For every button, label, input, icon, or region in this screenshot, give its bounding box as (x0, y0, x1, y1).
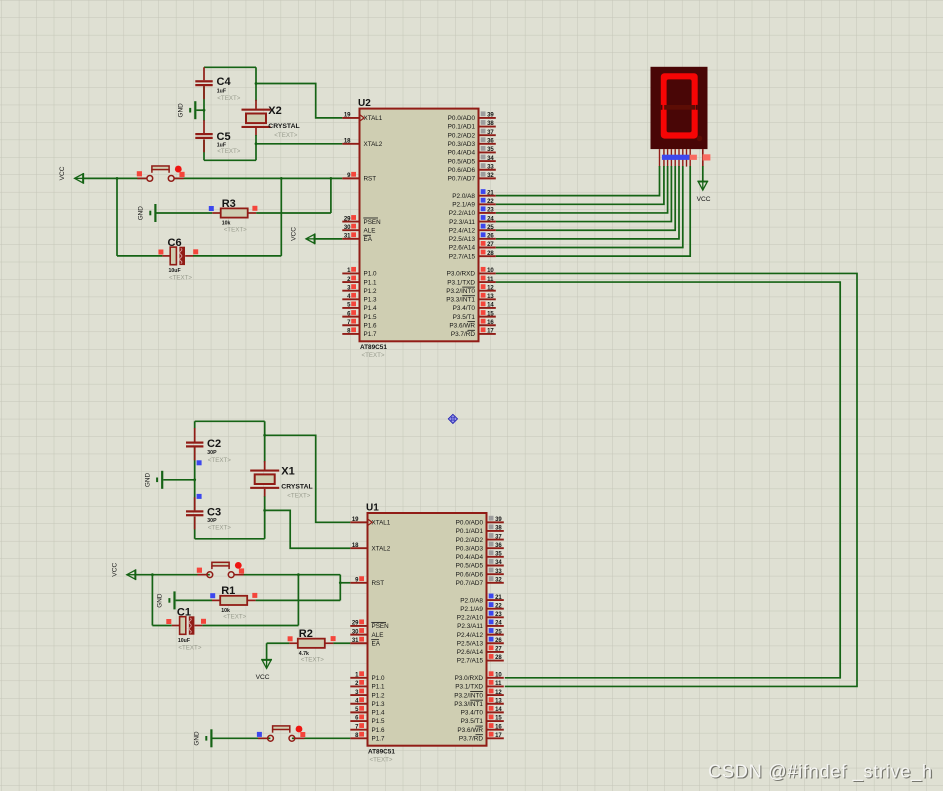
svg-text:38: 38 (495, 526, 502, 532)
wire GND branch (top crystal) (196, 109, 204, 111)
svg-text:AT89C51: AT89C51 (360, 344, 387, 351)
CSDN watermark text (708, 761, 934, 783)
svg-text:17: 17 (495, 733, 502, 739)
U2 pin 9 RST (342, 177, 359, 179)
svg-text:P1.6: P1.6 (364, 322, 377, 329)
svg-text:P2.2/A10: P2.2/A10 (449, 210, 476, 217)
svg-text:C2: C2 (207, 438, 221, 450)
U1 pin 18 XTAL2 (350, 547, 367, 549)
crystal X1 (250, 470, 279, 472)
svg-text:P0.2/AD2: P0.2/AD2 (456, 537, 484, 544)
wire C6 to RST branch (193, 255, 281, 257)
svg-text:P0.3/AD3: P0.3/AD3 (456, 545, 484, 552)
svg-text:P1.2: P1.2 (372, 692, 385, 699)
svg-text:<TEXT>: <TEXT> (217, 95, 240, 102)
U2 pin 35 P0.4/AD4 (479, 151, 496, 153)
svg-text:RST: RST (364, 176, 377, 183)
ground symbol (GND at R1) (173, 591, 175, 609)
svg-text:P0.1/AD1: P0.1/AD1 (448, 124, 476, 131)
svg-text:16: 16 (495, 724, 502, 730)
svg-text:C1: C1 (177, 607, 191, 619)
wire button to riser (U1 RST) (241, 574, 340, 576)
svg-text:P3.0/RXD: P3.0/RXD (455, 675, 484, 682)
svg-text:P0.0/AD0: P0.0/AD0 (456, 520, 484, 527)
wire X2 top segment (255, 67, 257, 101)
U2 pin 37 P0.2/AD2 (479, 134, 496, 136)
svg-text:P0.6/AD6: P0.6/AD6 (448, 167, 476, 174)
svg-text:38: 38 (487, 121, 494, 127)
svg-text:GND: GND (157, 593, 164, 608)
svg-text:P2.5/A13: P2.5/A13 (457, 640, 484, 647)
U2 pin 23 P2.2/A10 (479, 212, 496, 214)
ground symbol (GND bottom button) (210, 729, 212, 747)
wire to C6 left (117, 255, 162, 257)
wire X1 bottom to loop (264, 496, 266, 538)
svg-text:33: 33 (495, 569, 502, 575)
wire C1 to RST branch (202, 625, 298, 627)
svg-text:P3.5/T1: P3.5/T1 (453, 314, 476, 321)
svg-text:P1.0: P1.0 (364, 271, 377, 278)
wire VCC to button (83, 177, 146, 179)
svg-text:30: 30 (352, 629, 359, 635)
svg-text:VCC: VCC (111, 563, 118, 577)
wire U2 P3.1/TXD to U1 P3.0/RXD (496, 282, 840, 678)
svg-text:U1: U1 (366, 502, 379, 513)
U1 pin 37 P0.2/AD2 (487, 539, 504, 541)
svg-text:XTAL1: XTAL1 (372, 520, 391, 527)
wire GND to bottom button (213, 737, 271, 739)
svg-text:GND: GND (144, 473, 151, 488)
U1 pin 38 P0.1/AD1 (487, 530, 504, 532)
svg-text:10uF: 10uF (169, 268, 181, 274)
svg-text:XTAL2: XTAL2 (364, 141, 383, 148)
wire X2 bottom lead (255, 128, 257, 136)
capacitor C2 (186, 442, 203, 444)
U2 pin 11 P3.1/TXD (479, 281, 496, 283)
svg-text:33: 33 (487, 164, 494, 170)
svg-text:GND: GND (177, 103, 184, 118)
svg-text:XTAL2: XTAL2 (372, 545, 391, 552)
svg-text:C4: C4 (217, 76, 232, 88)
svg-text:P0.5/AD5: P0.5/AD5 (448, 158, 476, 165)
U2 pin 25 P2.4/A12 (479, 229, 496, 231)
U2 pin 24 P2.3/A11 (479, 221, 496, 223)
svg-text:CRYSTAL: CRYSTAL (281, 484, 312, 491)
7seg segment g (off) (664, 105, 695, 110)
wire to C1 left (152, 625, 171, 627)
U2 pin 13 P3.3/INT1 (479, 298, 496, 300)
svg-text:C5: C5 (217, 131, 231, 143)
svg-text:30P: 30P (207, 450, 217, 456)
U1 pin 1 P1.0 (350, 677, 367, 679)
svg-text:14: 14 (495, 707, 502, 713)
wire R2 to U1 EA (333, 642, 350, 644)
ground symbol (GND at R3) (154, 204, 156, 222)
svg-text:37: 37 (495, 534, 502, 540)
svg-text:18: 18 (352, 543, 359, 549)
svg-text:P2.6/A14: P2.6/A14 (449, 245, 476, 252)
node marker (blue origin diamond) (448, 414, 458, 424)
U2 pin 26 P2.5/A13 (479, 238, 496, 240)
U2 pin 21 P2.0/A8 (479, 195, 496, 197)
U1 pin 6 P1.5 (350, 720, 367, 722)
wire VCC riser to R2 (267, 642, 290, 644)
U1 pin 28 P2.7/A15 (487, 660, 504, 662)
U1 pin 27 P2.6/A14 (487, 651, 504, 653)
svg-text:10uF: 10uF (178, 638, 190, 644)
U1 pin 29 PSEN (350, 625, 367, 627)
U1 pin 25 P2.4/A12 (487, 634, 504, 636)
svg-text:P0.7/AD7: P0.7/AD7 (456, 580, 484, 587)
U2 pin 30 ALE (342, 229, 359, 231)
svg-text:34: 34 (495, 560, 502, 566)
svg-text:P2.6/A14: P2.6/A14 (457, 649, 484, 656)
svg-text:P2.1/A9: P2.1/A9 (460, 606, 483, 613)
wire X1 bottom lead (264, 489, 266, 497)
svg-text:23: 23 (487, 208, 494, 214)
U2 pin 3 P1.2 (342, 290, 359, 292)
U1 pin 15 P3.5/T1 (487, 720, 504, 722)
wire GND to R1 (176, 599, 212, 601)
svg-text:19: 19 (352, 517, 359, 523)
svg-text:<TEXT>: <TEXT> (287, 493, 310, 500)
svg-text:P3.6/WR: P3.6/WR (449, 322, 475, 329)
svg-text:31: 31 (352, 638, 359, 644)
svg-text:P1.3: P1.3 (372, 701, 385, 708)
svg-text:19: 19 (344, 113, 351, 119)
svg-text:P3.6/WR: P3.6/WR (457, 727, 483, 734)
svg-text:11: 11 (487, 277, 494, 283)
U1 pin 2 P1.1 (350, 685, 367, 687)
svg-text:<TEXT>: <TEXT> (301, 657, 324, 664)
capacitor C5 (195, 133, 212, 135)
svg-text:18: 18 (344, 139, 351, 145)
svg-text:RST: RST (372, 580, 385, 587)
U1 pin 23 P2.2/A10 (487, 616, 504, 618)
wire R3 right lead (248, 212, 257, 214)
U2 pin 4 P1.3 (342, 298, 359, 300)
wire 7seg segment b to U2 P2.1 (496, 166, 664, 204)
wire C3 top (194, 481, 196, 510)
svg-text:P2.3/A11: P2.3/A11 (457, 623, 483, 630)
crystal X2 (242, 109, 271, 111)
U1 pin 14 P3.4/T0 (487, 711, 504, 713)
wire 7seg segment h to U2 P2.7 (496, 166, 690, 256)
push button reset button U1 (197, 574, 207, 576)
svg-text:<TEXT>: <TEXT> (208, 457, 231, 464)
svg-text:P3.2/INT0: P3.2/INT0 (454, 692, 483, 699)
wire X2 bottom to loop (255, 135, 257, 160)
ground symbol (GND top crystal) (194, 101, 196, 119)
svg-text:14: 14 (487, 303, 494, 309)
U2 pin 22 P2.1/A9 (479, 203, 496, 205)
U1 pin 4 P1.3 (350, 703, 367, 705)
svg-text:X1: X1 (281, 466, 294, 478)
7seg pin state indicators (662, 155, 689, 160)
U2 pin 10 P3.0/RXD (479, 272, 496, 274)
svg-text:23: 23 (495, 612, 502, 618)
power symbol VCC (U1 reset) (135, 569, 137, 580)
svg-text:P0.4/AD4: P0.4/AD4 (448, 150, 476, 157)
wire bottom loop (XTAL2 net) (204, 159, 256, 161)
svg-text:P2.4/A12: P2.4/A12 (449, 227, 476, 234)
U2 pin 31 EA (342, 238, 359, 240)
svg-text:P3.2/INT0: P3.2/INT0 (446, 288, 475, 295)
svg-text:P1.3: P1.3 (364, 297, 377, 304)
svg-text:P0.6/AD6: P0.6/AD6 (456, 571, 484, 578)
svg-text:36: 36 (487, 139, 494, 145)
svg-text:P3.7/RD: P3.7/RD (459, 736, 484, 743)
U1 pin 8 P1.7 (350, 737, 367, 739)
wire to U1 RST stub (340, 582, 350, 584)
U2 pin 36 P0.3/AD3 (479, 143, 496, 145)
svg-text:VCC: VCC (256, 674, 270, 681)
power symbol VCC (U2 EA) (314, 233, 316, 244)
svg-text:CSDN @#ifndef _strive_h: CSDN @#ifndef _strive_h (708, 761, 933, 782)
U1 pin 9 RST (350, 582, 367, 584)
U1 pin 31 EA (350, 642, 367, 644)
svg-text:25: 25 (487, 225, 494, 231)
svg-text:<TEXT>: <TEXT> (169, 275, 192, 282)
U2 pin 5 P1.4 (342, 307, 359, 309)
capacitor C4 (195, 80, 212, 82)
svg-text:22: 22 (495, 603, 502, 609)
svg-text:P0.4/AD4: P0.4/AD4 (456, 554, 484, 561)
svg-text:ALE: ALE (372, 632, 384, 639)
wire C1 right branch (297, 575, 299, 626)
svg-text:P0.1/AD1: P0.1/AD1 (456, 528, 484, 535)
U1 pin 33 P0.6/AD6 (487, 573, 504, 575)
wire RST cap branch right (280, 178, 282, 256)
U2 pin 27 P2.6/A14 (479, 247, 496, 249)
wire C2-C3 junction (194, 448, 196, 483)
svg-text:<TEXT>: <TEXT> (217, 148, 240, 155)
U1 pin 21 P2.0/A8 (487, 599, 504, 601)
svg-text:P2.0/A8: P2.0/A8 (452, 193, 475, 200)
svg-text:36: 36 (495, 543, 502, 549)
svg-text:P0.7/AD7: P0.7/AD7 (448, 176, 476, 183)
svg-text:P3.4/T0: P3.4/T0 (453, 305, 476, 312)
svg-text:32: 32 (487, 173, 494, 179)
U1 pin 19 XTAL1 (350, 521, 367, 523)
svg-text:35: 35 (487, 147, 494, 153)
svg-text:P3.4/T0: P3.4/T0 (461, 710, 484, 717)
svg-text:<TEXT>: <TEXT> (224, 226, 247, 233)
op-amp-style IC body U2 AT89C51 (360, 109, 479, 342)
svg-text:21: 21 (495, 595, 502, 601)
svg-text:21: 21 (487, 190, 494, 196)
U2 pin 1 P1.0 (342, 272, 359, 274)
svg-text:<TEXT>: <TEXT> (223, 614, 246, 621)
svg-text:39: 39 (495, 517, 502, 523)
wire node XTAL1-net top loop (204, 66, 256, 68)
U1 pin 13 P3.3/INT1 (487, 703, 504, 705)
U2 pin 33 P0.6/AD6 (479, 169, 496, 171)
svg-text:24: 24 (487, 216, 494, 222)
resistor R3 (221, 208, 248, 217)
svg-text:P3.5/T1: P3.5/T1 (461, 718, 484, 725)
svg-text:P2.2/A10: P2.2/A10 (457, 615, 484, 622)
wire C5 bottom lead (203, 139, 205, 160)
svg-text:P0.2/AD2: P0.2/AD2 (448, 132, 476, 139)
U1 pin 12 P3.2/INT0 (487, 694, 504, 696)
wire C6 right lead (185, 255, 193, 257)
svg-text:P2.1/A9: P2.1/A9 (452, 202, 475, 209)
U2 pin 34 P0.5/AD5 (479, 160, 496, 162)
capacitor C1 (electrolytic) (180, 617, 186, 635)
U1 pin 32 P0.7/AD7 (487, 582, 504, 584)
7seg display pins (659, 149, 661, 167)
wire C4 top lead (203, 67, 205, 80)
svg-text:VCC: VCC (291, 227, 298, 241)
svg-text:P1.1: P1.1 (372, 684, 385, 691)
wire RST cap branch left (116, 178, 118, 256)
U2 pin 32 P0.7/AD7 (479, 177, 496, 179)
svg-text:30: 30 (344, 225, 351, 231)
svg-text:R3: R3 (222, 198, 236, 210)
svg-text:<TEXT>: <TEXT> (362, 352, 385, 359)
wire X1 to U1 XTAL1 (265, 435, 351, 522)
wire GND branch (bottom crystal) (163, 479, 194, 481)
wire R1 to RST riser (256, 599, 341, 601)
push button reset button U2 (137, 177, 147, 179)
svg-text:C3: C3 (207, 507, 221, 519)
7seg decimal point (off) (697, 136, 703, 142)
svg-text:26: 26 (495, 638, 502, 644)
svg-text:26: 26 (487, 234, 494, 240)
svg-text:17: 17 (487, 329, 494, 335)
wire C1 left branch (151, 575, 153, 626)
svg-text:30P: 30P (207, 518, 217, 524)
svg-text:P2.3/A11: P2.3/A11 (449, 219, 475, 226)
svg-text:1uF: 1uF (217, 89, 226, 95)
wire C1 right lead (195, 625, 203, 627)
svg-text:24: 24 (495, 621, 502, 627)
wire GND to R3 (157, 212, 213, 214)
svg-text:10: 10 (495, 673, 502, 679)
U1 pin 24 P2.3/A11 (487, 625, 504, 627)
U1 pin 35 P0.4/AD4 (487, 556, 504, 558)
wire 7seg segment e to U2 P2.4 (496, 166, 675, 230)
U2 pin 17 P3.7/RD (479, 333, 496, 335)
svg-text:34: 34 (487, 156, 494, 162)
svg-text:CRYSTAL: CRYSTAL (268, 123, 299, 130)
wire R3 to RST riser (330, 178, 332, 213)
svg-text:32: 32 (495, 577, 502, 583)
U2 pin 7 P1.6 (342, 324, 359, 326)
svg-text:39: 39 (487, 113, 494, 119)
power symbol VCC (7seg common) (697, 180, 708, 182)
wire X2 top to U2 XTAL1 (256, 84, 342, 118)
U2 pin 12 P3.2/INT0 (479, 290, 496, 292)
wire X1 top segment (264, 421, 266, 462)
svg-text:P3.3/INT1: P3.3/INT1 (454, 701, 483, 708)
svg-text:P2.7/A15: P2.7/A15 (457, 658, 484, 665)
U1 pin 16 P3.6/WR (487, 729, 504, 731)
svg-text:<TEXT>: <TEXT> (274, 132, 297, 139)
svg-text:28: 28 (487, 251, 494, 257)
U1 pin 34 P0.5/AD5 (487, 565, 504, 567)
wire 7seg segment d to U2 P2.3 (496, 166, 672, 222)
U2 pin 29 PSEN (342, 221, 359, 223)
svg-text:P1.6: P1.6 (372, 727, 385, 734)
wire button to U2 RST (175, 177, 343, 179)
wire R2 to VCC down (266, 643, 268, 659)
U2 pin 19 XTAL1 (342, 117, 359, 119)
wire C3 bottom (194, 517, 196, 539)
wire bottom-crystal top loop (195, 420, 265, 422)
svg-text:R1: R1 (221, 585, 235, 597)
svg-text:AT89C51: AT89C51 (368, 749, 395, 756)
U2 pin 18 XTAL2 (342, 143, 359, 145)
svg-text:29: 29 (344, 216, 351, 222)
svg-text:PSEN: PSEN (372, 623, 390, 630)
svg-text:12: 12 (487, 285, 494, 291)
svg-text:15: 15 (495, 716, 502, 722)
wire R2 right lead (325, 642, 334, 644)
wire C5 top lead (203, 120, 205, 133)
U1 pin 3 P1.2 (350, 694, 367, 696)
wire 7seg segment a to U2 P2.0 (496, 166, 660, 196)
wire R3 to riser (256, 212, 331, 214)
svg-text:P2.7/A15: P2.7/A15 (449, 253, 476, 260)
svg-text:29: 29 (352, 621, 359, 627)
push button button at U1 P1.7 (258, 737, 268, 739)
svg-text:U2: U2 (358, 98, 371, 109)
svg-text:P0.3/AD3: P0.3/AD3 (448, 141, 476, 148)
svg-text:P1.5: P1.5 (364, 314, 377, 321)
svg-text:GND: GND (138, 206, 145, 221)
resistor R1 (220, 596, 247, 605)
U1 pin 17 P3.7/RD (487, 737, 504, 739)
U2 pin 2 P1.1 (342, 281, 359, 283)
svg-text:37: 37 (487, 130, 494, 136)
svg-text:15: 15 (487, 311, 494, 317)
svg-text:12: 12 (495, 690, 502, 696)
svg-text:10: 10 (487, 268, 494, 274)
U1 pin 11 P3.1/TXD (487, 685, 504, 687)
svg-text:35: 35 (495, 552, 502, 558)
wire VCC to U2 EA (315, 238, 343, 240)
U2 pin 16 P3.6/WR (479, 324, 496, 326)
wire 7seg common to VCC (702, 166, 704, 181)
ground symbol (GND bottom crystal) (161, 471, 163, 489)
U1 pin 22 P2.1/A9 (487, 608, 504, 610)
svg-text:GND: GND (194, 731, 201, 746)
svg-text:P3.1/TXD: P3.1/TXD (455, 684, 483, 691)
capacitor C6 (electrolytic) (170, 247, 176, 265)
svg-text:VCC: VCC (697, 196, 711, 203)
svg-text:P2.0/A8: P2.0/A8 (460, 597, 483, 604)
svg-text:16: 16 (487, 320, 494, 326)
U1 pin 26 P2.5/A13 (487, 642, 504, 644)
svg-text:EA: EA (372, 640, 381, 647)
wire C4-C5 junction segment (203, 86, 205, 121)
svg-text:13: 13 (495, 698, 502, 704)
svg-text:28: 28 (495, 655, 502, 661)
svg-text:P1.0: P1.0 (372, 675, 385, 682)
op-amp-style IC body U1 AT89C51 (368, 513, 487, 746)
svg-text:11: 11 (495, 681, 502, 687)
svg-text:P1.4: P1.4 (372, 710, 385, 717)
svg-text:31: 31 (344, 234, 351, 240)
U2 pin 28 P2.7/A15 (479, 255, 496, 257)
wire U2 P3.0/RXD to U1 P3.1/TXD (496, 273, 857, 686)
wire bottom loop (195, 538, 265, 540)
wire bottom button to U1 P1.7 (292, 737, 350, 739)
power symbol VCC (U2 reset) (82, 173, 84, 184)
svg-text:P3.3/INT1: P3.3/INT1 (446, 297, 475, 304)
